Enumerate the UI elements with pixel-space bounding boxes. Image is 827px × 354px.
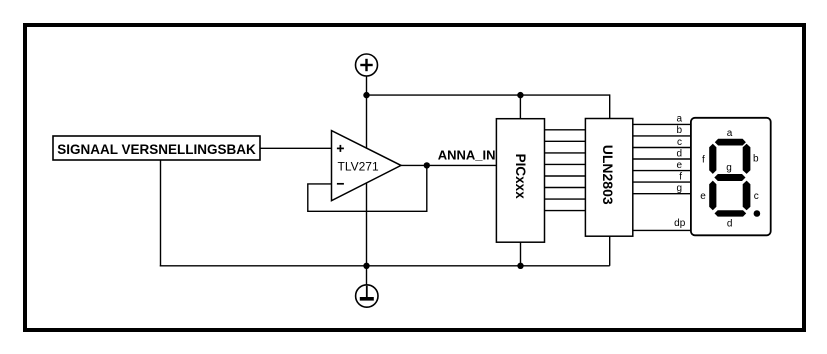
wire feedback loop bbox=[308, 165, 427, 211]
junction bottom rail at power vertical bbox=[363, 263, 369, 269]
svg-text:d: d bbox=[676, 148, 682, 159]
op-amp U1 TLV271 bbox=[332, 131, 402, 201]
wire bus PIC-ULN 5 bbox=[545, 175, 586, 177]
power supply + bbox=[356, 54, 378, 76]
junction top rail at PIC stub bbox=[517, 92, 523, 98]
decimal point bbox=[754, 210, 761, 217]
svg-text:g: g bbox=[726, 163, 732, 174]
segment c bar bbox=[743, 181, 751, 211]
svg-text:f: f bbox=[679, 171, 682, 182]
svg-text:c: c bbox=[677, 137, 682, 148]
wire bus PIC-ULN 8 bbox=[545, 210, 586, 212]
svg-text:e: e bbox=[676, 160, 682, 171]
svg-text:dp: dp bbox=[674, 218, 686, 229]
junction top rail at power vertical bbox=[363, 92, 369, 98]
svg-text:TLV271: TLV271 bbox=[338, 160, 379, 174]
svg-text:e: e bbox=[700, 191, 706, 202]
wire segment dp bbox=[633, 218, 691, 230]
wire segment b bbox=[633, 125, 691, 136]
wire bus PIC-ULN 4 bbox=[545, 163, 586, 165]
ground symbol bbox=[356, 266, 378, 307]
svg-text:g: g bbox=[676, 183, 682, 194]
svg-text:SIGNAAL VERSNELLINGSBAK: SIGNAAL VERSNELLINGSBAK bbox=[57, 142, 256, 157]
block SIGNAAL VERSNELLINGSBAK bbox=[53, 136, 260, 160]
wire bus PIC-ULN 2 bbox=[545, 140, 586, 142]
block ULN2803 bbox=[585, 119, 632, 237]
wire segment c bbox=[633, 137, 691, 148]
wire op-amp output to PICxxx bbox=[401, 164, 496, 166]
svg-text:b: b bbox=[753, 153, 759, 164]
wire bus PIC-ULN 6 bbox=[545, 187, 586, 189]
segment b bar bbox=[743, 144, 751, 174]
wire PIC top stub bbox=[519, 95, 521, 119]
svg-text:PICxxx: PICxxx bbox=[513, 154, 528, 200]
wire segment a bbox=[633, 114, 691, 125]
svg-text:c: c bbox=[754, 191, 759, 202]
wire SIGNAAL output to op-amp + input bbox=[260, 147, 332, 149]
segment e bar bbox=[709, 181, 716, 211]
wire top rail down to ULN2803 top bbox=[609, 94, 611, 118]
segment d bar bbox=[715, 210, 747, 216]
wire power vertical from supply to bottom rail bbox=[366, 76, 368, 266]
wire bus PIC-ULN 7 bbox=[545, 198, 586, 200]
junction bottom rail at PIC stub bbox=[517, 263, 523, 269]
wire bottom rail bbox=[160, 265, 610, 267]
wire segment f bbox=[633, 171, 691, 182]
wire ULN2803 bottom riser bbox=[609, 236, 611, 266]
wire bus PIC-ULN 3 bbox=[545, 152, 586, 154]
svg-text:f: f bbox=[702, 154, 705, 165]
wire SIGNAAL box down to bottom rail bbox=[160, 160, 162, 267]
svg-text:a: a bbox=[676, 114, 682, 125]
segment g bar bbox=[714, 174, 745, 181]
svg-text:d: d bbox=[727, 218, 733, 229]
svg-text:ULN2803: ULN2803 bbox=[600, 145, 616, 205]
svg-text:b: b bbox=[676, 125, 682, 136]
wire segment g bbox=[633, 183, 691, 194]
wire top rail bbox=[367, 94, 610, 96]
block PICxxx bbox=[496, 119, 544, 243]
svg-text:ANNA_IN: ANNA_IN bbox=[438, 148, 496, 163]
wire bus PIC-ULN 1 bbox=[545, 129, 586, 131]
7-segment display DS1 bbox=[691, 118, 771, 236]
wire PIC bottom stub bbox=[520, 242, 522, 266]
svg-text:a: a bbox=[727, 128, 733, 139]
wire segment e bbox=[633, 160, 691, 171]
segment f bar bbox=[709, 144, 716, 174]
segment a bar bbox=[715, 139, 746, 146]
junction op-amp output bbox=[424, 162, 430, 168]
wire segment d bbox=[633, 148, 691, 159]
